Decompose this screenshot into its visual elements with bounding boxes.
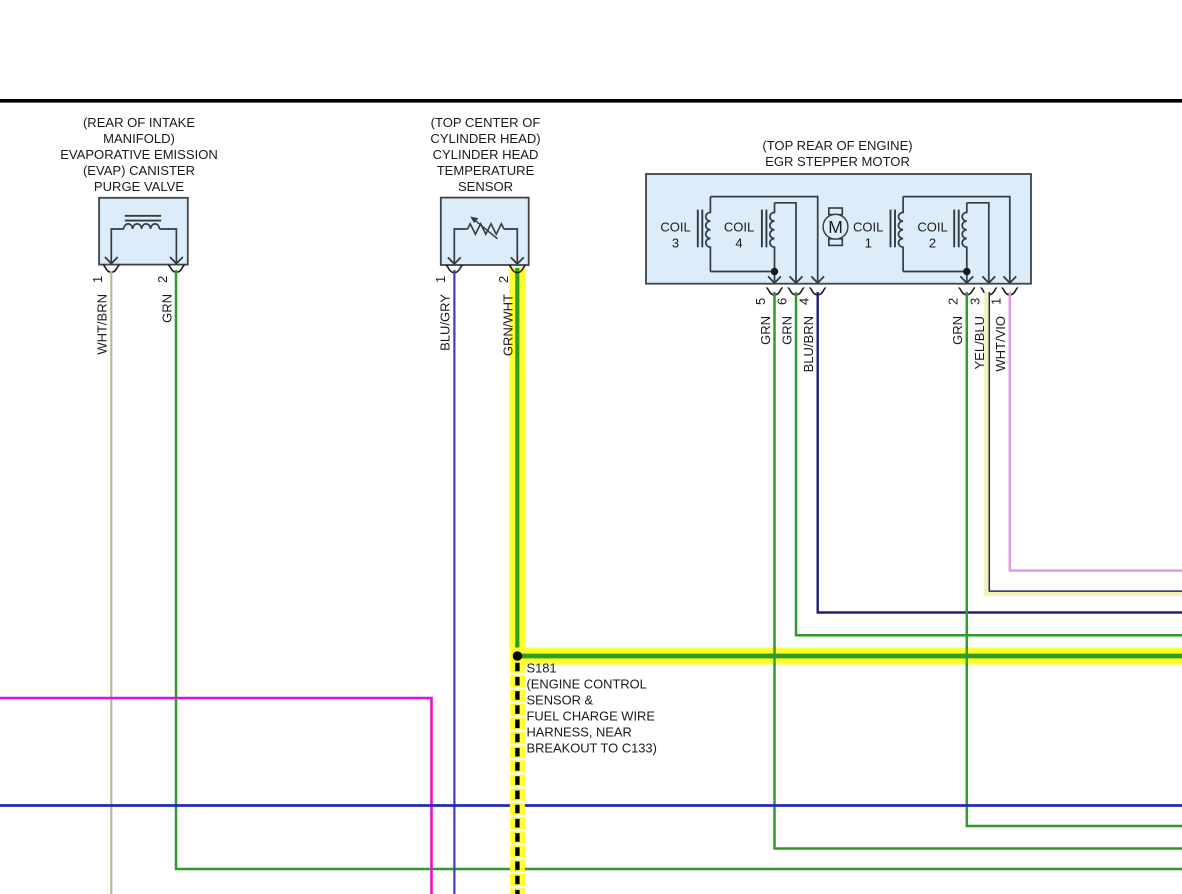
junction dot right group <box>963 268 970 275</box>
coil L4 core bars <box>762 210 767 248</box>
coil L1 core bars <box>891 210 896 248</box>
wire YEL/BLU blue tracer <box>989 292 1182 591</box>
wire rail coil4 top to pin 6 <box>775 203 797 283</box>
sensor pin 1 arrowhead <box>448 257 461 264</box>
EGR pin 6 connector <box>788 288 805 295</box>
wire BLU horizontal <box>0 804 1182 807</box>
splice S181 yellow highlight horizontal <box>510 648 1182 665</box>
svg-text:BLU/BRN: BLU/BRN <box>801 316 816 372</box>
EGR pin 1 connector <box>1002 288 1019 295</box>
wire rail coil2 top to pin 3 <box>967 203 989 283</box>
svg-text:(TOP CENTER OF: (TOP CENTER OF <box>431 115 541 130</box>
wire GRN from EGR pin 6 <box>796 292 1182 635</box>
motor brush top <box>829 208 843 215</box>
svg-text:2: 2 <box>946 298 961 305</box>
junction dot left group <box>771 268 778 275</box>
svg-text:2: 2 <box>155 276 170 283</box>
svg-text:(ENGINE CONTROL: (ENGINE CONTROL <box>527 676 647 691</box>
EVAP pin 2 connector <box>168 265 185 272</box>
svg-text:EGR STEPPER MOTOR: EGR STEPPER MOTOR <box>765 154 910 169</box>
wire bottom rail coil3 to junction <box>710 272 774 283</box>
sensor pin 2 arrowhead <box>511 257 524 264</box>
svg-text:COIL: COIL <box>853 220 883 235</box>
svg-text:4: 4 <box>735 236 742 251</box>
thermistor resistor zigzag <box>468 224 504 234</box>
svg-text:GRN/WHT: GRN/WHT <box>501 294 516 356</box>
coil L1 winding <box>899 197 904 272</box>
svg-text:4: 4 <box>796 298 811 305</box>
svg-text:1: 1 <box>90 276 105 283</box>
motor M1 circle <box>823 214 848 239</box>
svg-text:WHT/VIO: WHT/VIO <box>993 316 1008 372</box>
svg-text:MANIFOLD): MANIFOLD) <box>103 131 175 146</box>
wire bottom rail coil1 to junction <box>903 272 967 283</box>
svg-text:BREAKOUT TO C133): BREAKOUT TO C133) <box>527 740 657 755</box>
coil L2 core bars <box>954 210 959 248</box>
svg-text:3: 3 <box>968 298 983 305</box>
splice S181 caption <box>527 660 657 755</box>
EVAP pin 1 arrowhead <box>105 257 118 264</box>
svg-text:BLU/GRY: BLU/GRY <box>438 294 453 351</box>
EGR stepper motor component box <box>646 174 1031 284</box>
EVAP pin 1 connector <box>103 265 120 272</box>
svg-text:1: 1 <box>989 298 1004 305</box>
svg-text:2: 2 <box>929 236 936 251</box>
wire GRN from EVAP pin 2 <box>176 270 1182 869</box>
top border rule <box>0 99 1182 103</box>
coil L2 winding <box>962 203 967 272</box>
svg-text:FUEL CHARGE WIRE: FUEL CHARGE WIRE <box>527 708 656 723</box>
thermistor arrow <box>471 217 498 239</box>
coil L4 winding <box>770 203 775 272</box>
svg-text:1: 1 <box>433 276 448 283</box>
EGR pin 3 arrowhead <box>982 276 995 283</box>
svg-text:S181: S181 <box>527 660 557 675</box>
splice S181 unnamed-harness yellow dashed highlight <box>510 661 525 894</box>
wire MAG circuit <box>0 698 432 894</box>
svg-text:(TOP REAR OF ENGINE): (TOP REAR OF ENGINE) <box>762 138 912 153</box>
svg-text:(REAR OF INTAKE: (REAR OF INTAKE <box>83 115 195 130</box>
wire top rail coil3 to pin 4 <box>710 197 817 283</box>
svg-text:GRN: GRN <box>758 316 773 345</box>
svg-text:GRN: GRN <box>950 316 965 345</box>
svg-text:GRN: GRN <box>160 294 175 323</box>
svg-text:6: 6 <box>775 298 790 305</box>
wire BLU/BRN from EGR pin 4 <box>818 292 1182 613</box>
EGR pin 2 connector <box>959 288 976 295</box>
svg-text:GRN: GRN <box>779 316 794 345</box>
wire GRN from EGR pin 5 <box>775 292 1182 849</box>
EGR pin 4 connector <box>809 288 826 295</box>
svg-text:COIL: COIL <box>917 220 947 235</box>
svg-text:WHT/BRN: WHT/BRN <box>95 294 110 355</box>
wire top rail coil1 to pin 1 <box>903 197 1010 283</box>
splice S181 node dot <box>513 651 522 660</box>
svg-text:EVAPORATIVE EMISSION: EVAPORATIVE EMISSION <box>60 147 218 162</box>
wire WHT/BRN vertical <box>110 271 112 894</box>
EGR pin 2 arrowhead <box>960 276 973 283</box>
EVAP canister purge valve caption <box>60 115 218 194</box>
sensor pin 2 connector <box>509 266 526 273</box>
wire GRN/WHT horizontal from splice S181 <box>516 654 1182 659</box>
svg-text:2: 2 <box>496 276 511 283</box>
EGR pin 5 arrowhead <box>768 276 781 283</box>
coil L3 core bars <box>698 210 703 248</box>
svg-text:CYLINDER HEAD): CYLINDER HEAD) <box>430 131 540 146</box>
splice S181 unnamed-harness black dashed wire <box>515 663 519 894</box>
EGR stepper motor caption <box>762 138 912 169</box>
EVAP solenoid coil winding <box>124 224 160 229</box>
EGR pin 6 arrowhead <box>790 276 803 283</box>
svg-text:HARNESS, NEAR: HARNESS, NEAR <box>527 724 632 739</box>
svg-text:SENSOR: SENSOR <box>458 179 513 194</box>
svg-text:COIL: COIL <box>724 220 754 235</box>
svg-text:(EVAP) CANISTER: (EVAP) CANISTER <box>83 163 195 178</box>
sensor internal lead wire pin 2 <box>504 229 517 264</box>
EVAP purge valve component box <box>99 198 188 265</box>
wire GRN from EGR pin 2 <box>967 292 1182 826</box>
wire GRN/WHT yellow highlight vertical <box>509 267 526 649</box>
motor brush bottom <box>829 239 843 246</box>
EVAP solenoid core lines <box>125 216 161 221</box>
EVAP pin 2 arrowhead <box>170 257 183 264</box>
wire BLU/GRY vertical <box>453 270 455 894</box>
EGR pin 3 connector <box>981 288 998 295</box>
sensor pin 1 connector <box>446 266 463 273</box>
sensor internal lead wire pin 1 <box>454 229 467 264</box>
EGR pin 1 arrowhead <box>1003 276 1016 283</box>
svg-text:M: M <box>828 217 843 237</box>
svg-text:TEMPERATURE: TEMPERATURE <box>437 163 535 178</box>
EGR pin 4 arrowhead <box>811 276 824 283</box>
svg-text:3: 3 <box>672 236 679 251</box>
wire WHT/VIO from EGR pin 1 <box>1010 292 1182 571</box>
wire YEL/BLU yellow body <box>987 292 1182 593</box>
wire GRN/WHT vertical from sensor pin 2 <box>515 268 519 656</box>
svg-text:CYLINDER HEAD: CYLINDER HEAD <box>433 147 539 162</box>
EGR pin 5 connector <box>766 288 783 295</box>
coil L3 winding <box>706 197 711 272</box>
EVAP internal lead wire pin 1 <box>111 229 123 263</box>
svg-text:SENSOR &: SENSOR & <box>527 692 594 707</box>
EVAP internal lead wire pin 2 <box>160 229 177 263</box>
svg-text:PURGE VALVE: PURGE VALVE <box>94 179 184 194</box>
cylinder head temperature sensor box <box>441 198 529 265</box>
svg-text:COIL: COIL <box>660 220 690 235</box>
svg-text:5: 5 <box>753 298 768 305</box>
cylinder head temperature sensor caption <box>430 115 540 194</box>
svg-text:1: 1 <box>865 236 872 251</box>
